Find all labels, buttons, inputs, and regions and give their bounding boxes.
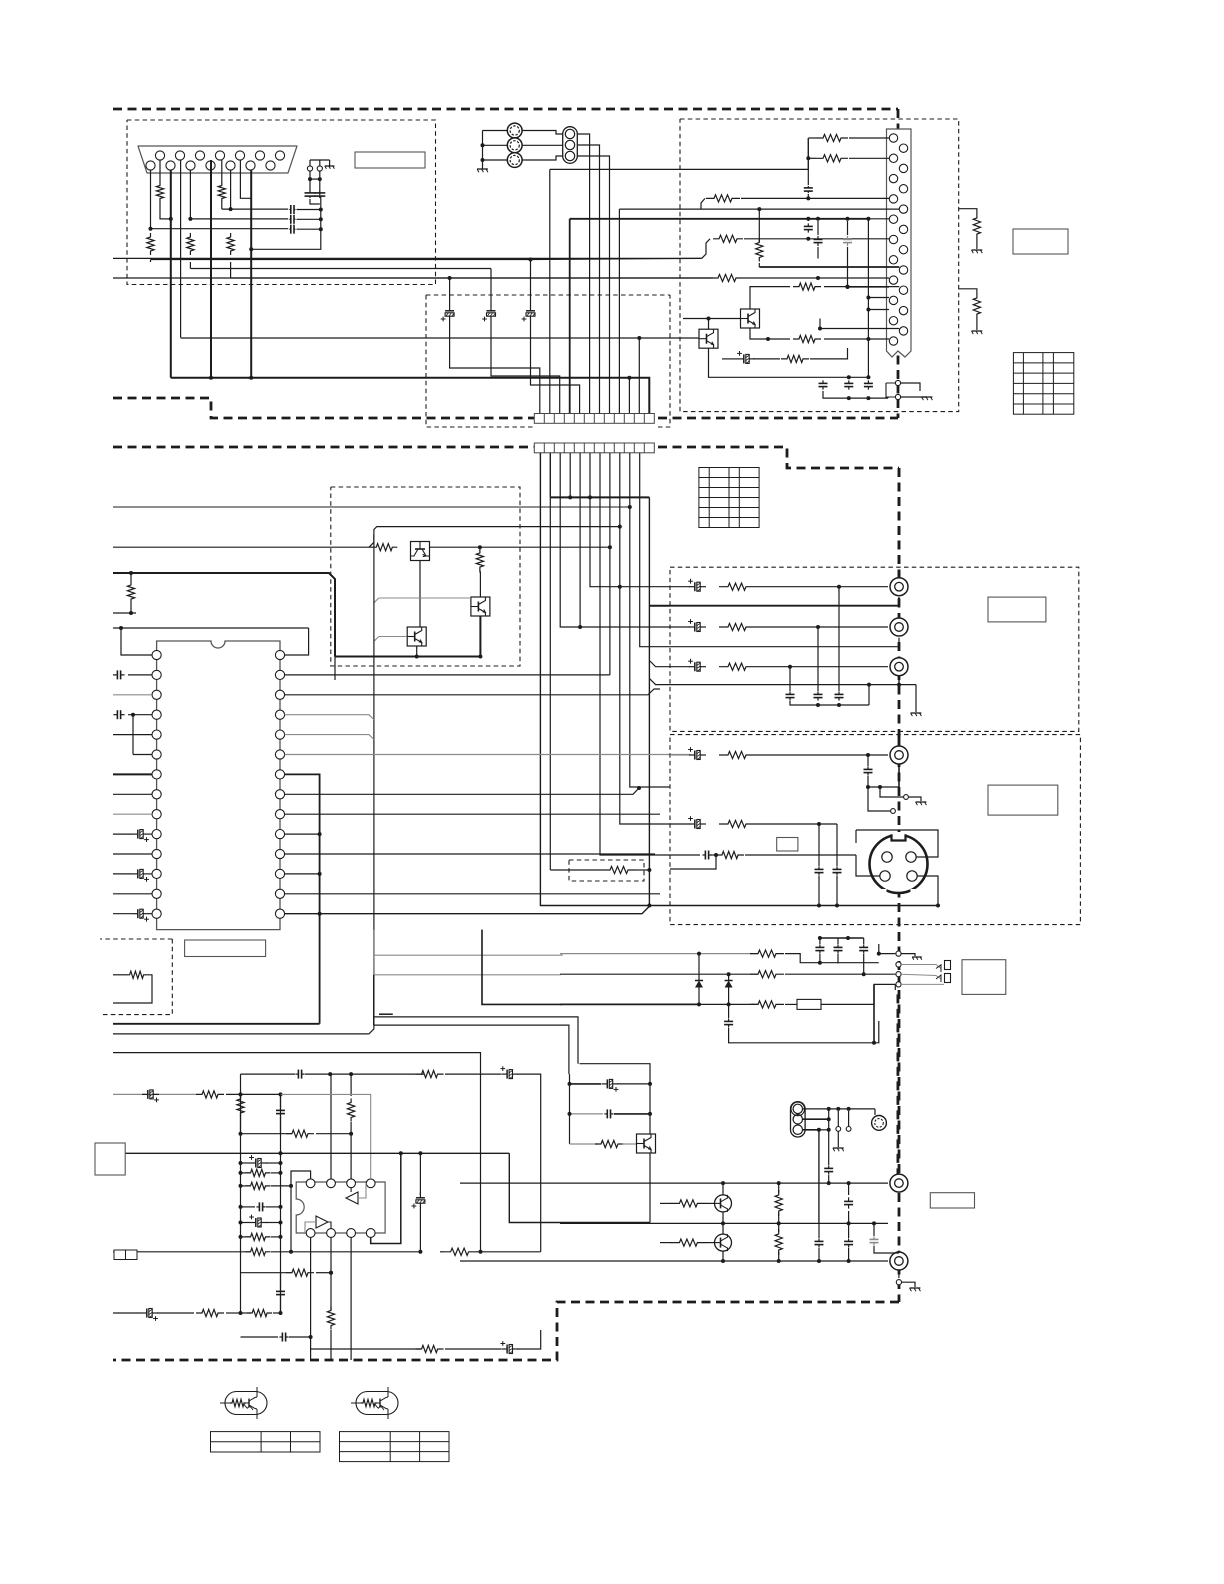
wire out1 return thick [670, 605, 899, 607]
capacitor C bottom row 3 [867, 380, 869, 383]
jack RCA audio R [890, 1252, 908, 1270]
capacitor C top row 3 [863, 938, 865, 944]
ground near 2-pin jack [329, 160, 331, 166]
capacitor C pin2 [113, 674, 114, 676]
label box left edge [95, 1143, 125, 1175]
wire pin13 [113, 893, 152, 895]
wire bus exits to rows 667/685 [649, 661, 690, 667]
resistor on pin7 [221, 160, 223, 184]
ground bottom 2-pin [922, 396, 933, 398]
resistor R feedback [113, 974, 128, 976]
resistor on pin 2 [159, 160, 161, 184]
label box right [1013, 229, 1068, 254]
wire Q5 emitter down join [416, 646, 418, 657]
hp switch arrows [901, 965, 941, 969]
wire long 258.4 from left [113, 257, 702, 259]
wire cluster feeds down [569, 1074, 571, 1144]
jack aux circle [872, 1116, 887, 1131]
dashed box AV output group [680, 119, 959, 412]
wire bus 370 vertical [369, 534, 374, 1034]
resistor R cluster base [570, 1143, 599, 1145]
wire IC right pin14 heavy [285, 906, 650, 913]
wire IC right pin10 [285, 833, 320, 835]
capacitor C at pin 198 [807, 186, 809, 188]
wire long left 547 [113, 546, 372, 548]
capacitor C audio 4 gray [873, 1223, 875, 1236]
resistor R v1 [237, 1096, 244, 1116]
resistor R feed 4 [712, 274, 742, 281]
connector multi-pin circles [889, 134, 897, 142]
wire gray to pin [281, 1094, 371, 1178]
transistor Q3 box [411, 542, 430, 561]
capacitor C chroma row [670, 854, 700, 856]
resistor below pin (left) [147, 233, 154, 255]
connector multi-pin body [887, 129, 912, 357]
wire switch common heavy [335, 656, 480, 658]
wire pin 287 [848, 286, 890, 288]
wire out gnd drop [898, 675, 900, 685]
wire long 1002 [482, 930, 562, 1005]
capacitor electrolytic pin14 [132, 913, 138, 915]
wire IC right pin5 hook to bus [285, 735, 374, 740]
capacitor electrolytic cluster [570, 1083, 602, 1085]
wire bus net497 drop to rows 606/905 [648, 497, 650, 905]
op-amp IC U2 body [296, 1182, 385, 1233]
capacitor pair below jack [309, 191, 311, 193]
wire top board outline heavy dashed [113, 108, 898, 111]
wire pin6 loop [133, 754, 152, 756]
wire RCA trio commons [483, 130, 508, 132]
resistor R emitter 2 [793, 335, 821, 342]
capacitor C 246 b gray [847, 236, 849, 240]
wire corner 218.8 from bus heavy [570, 218, 869, 220]
capacitor electrolytic bot-a [113, 1312, 141, 1314]
wire vertical main bus in box [867, 219, 869, 298]
capacitor electrolytic out1 [670, 586, 690, 588]
wire bus cell7 to row 855 [600, 453, 670, 855]
wire corner 169 drop [549, 169, 551, 413]
wire pin6 heavy down [210, 160, 212, 378]
resistor R in-b [241, 1172, 251, 1174]
wire U2 bottom pin drops [310, 1237, 312, 1360]
wire pin8 down w/resistor [230, 170, 232, 209]
wire filter caps bottom [790, 701, 869, 705]
ground RCA trio [477, 168, 488, 170]
connector CN dashed box (D-sub group) [127, 120, 436, 285]
wire net 627 across IC top [113, 627, 309, 629]
capacitor C y [867, 755, 869, 766]
wire bus cell9 to row 824 [620, 453, 670, 824]
capacitor C bottom row 1 [822, 380, 824, 383]
op-amp triangle 1 [346, 1192, 358, 1204]
wire bus stub [628, 378, 630, 414]
connector pin stub a [904, 795, 909, 800]
wire bus cell2 descender to R-box [549, 497, 551, 870]
wire bus to caps [222, 208, 288, 210]
wire hp caps top rail [820, 937, 864, 939]
resistor R base L [660, 1202, 671, 1204]
wire out3 return [670, 684, 899, 686]
wire bottom caps top link [823, 376, 868, 378]
connector D-sub pins bottom row [146, 161, 155, 170]
ground hp [901, 954, 915, 956]
connector S-video [870, 835, 928, 893]
wire stadium rows [803, 1108, 876, 1110]
wire pin3 [113, 694, 152, 696]
wire transistor rows [460, 1182, 888, 1184]
jack RCA out3 [890, 658, 908, 676]
diode D1 [698, 954, 700, 977]
transistor Q audio L [715, 1195, 732, 1212]
wire IC right pin4 hook to bus [285, 715, 374, 720]
wire junction fan below IC [373, 955, 375, 958]
wire chroma loop [670, 855, 716, 869]
capacitor C bottom row 2 [848, 380, 850, 383]
wire IC right pin6 gray long to row 755 [285, 754, 690, 756]
resistor R link [602, 866, 636, 873]
op-amp IC U1 body (DIP-28) [157, 641, 280, 930]
connector 2-pin jack [307, 166, 312, 171]
capacitor C audio 2 [818, 1233, 820, 1238]
resistor R c-out [719, 820, 755, 827]
wire bus cell3 to row 627 [560, 453, 670, 627]
wire Q3 collector down [419, 561, 421, 628]
wire hp row3 thick [560, 1003, 699, 1005]
capacitor electrolytic in-a [241, 1162, 251, 1164]
wire bus cell5 [579, 453, 581, 627]
wire bus cell1 to gnd row [540, 453, 670, 906]
wire vertical cap feed [807, 138, 809, 185]
hp switch contacts [945, 961, 951, 970]
legend digital transistor 1 [225, 1392, 267, 1415]
wire hp row1 gray [560, 953, 758, 955]
connector stadium 3-pin [522, 131, 563, 135]
wire into Q4 base gray [379, 597, 471, 599]
wire hp jack contacts [818, 962, 838, 964]
capacitor electrolytic out2 [670, 626, 690, 628]
IC U2 bottom pins [306, 1229, 315, 1238]
capacitor C audio 3 [848, 1223, 850, 1238]
capacitor C top row 2 [837, 938, 839, 944]
wire c to svideo [836, 824, 838, 836]
wire pin10 heavy down [250, 170, 252, 378]
ground svideo stub [908, 797, 921, 801]
wire IC pin28 feed [285, 628, 309, 655]
wire row 1223 [560, 1222, 888, 1224]
connector pin stub b [891, 809, 896, 814]
IC U1 right pins [275, 650, 284, 659]
resistor R above Q4 [479, 547, 481, 551]
wire main board top edge heavy dashed [113, 446, 534, 449]
wire Q4 emitter down join [479, 616, 481, 657]
capacitor electrolytic E2 vertical [490, 269, 492, 306]
label box svideo [988, 785, 1058, 815]
capacitor electrolytic small [722, 358, 738, 360]
table legend 2 [340, 1432, 450, 1462]
wire pin7 thick [113, 773, 152, 775]
wire svideo bottom bus [670, 905, 938, 907]
wire top board right edge heavy dashed [897, 109, 900, 418]
wire IC right pin12 [285, 873, 320, 875]
small 2-cell box left edge [114, 1250, 137, 1260]
wire Q2 collector up [708, 319, 710, 330]
wire jack leads down [309, 171, 311, 192]
connector strip lower (board link) [534, 443, 654, 453]
capacitor electrolytic op-feed [501, 1073, 507, 1075]
jack RCA y-out [890, 746, 908, 764]
wire pin11 [113, 853, 152, 855]
resistor R feed 3 [702, 239, 710, 259]
resistor R bot-b [196, 1309, 224, 1316]
capacitor electrolytic pin10 [132, 833, 138, 835]
jack RCA out1 [890, 578, 908, 596]
wire IC right pin9 [285, 813, 660, 815]
fuse/bead box [785, 1003, 797, 1005]
resistor pulldown R out2 [959, 289, 977, 296]
capacitor C bot [241, 1336, 279, 1338]
resistor R right mid [291, 1251, 420, 1253]
wire bus cell6 to row 587 [590, 453, 670, 587]
resistor R out1 [719, 583, 755, 590]
capacitor electrolytic bot-d [501, 1348, 507, 1350]
op-amp triangle 2 [316, 1216, 328, 1228]
heavy dashed net svideo [898, 735, 901, 744]
wire corner 209 from bus [619, 208, 759, 210]
wire IC right pin13 [285, 893, 660, 895]
wire long left 507 [113, 506, 630, 508]
capacitor C audio 1 [848, 1183, 850, 1195]
capacitor coupling 3 [151, 228, 289, 230]
dashed box video out group [670, 567, 1079, 731]
resistor R v2 [348, 1099, 355, 1122]
connector D-sub pins top row [155, 151, 164, 160]
resistor R bot1 [241, 1312, 252, 1314]
ground pulldown 2 [972, 330, 983, 332]
heavy dashed net through jacks [898, 468, 901, 578]
connector strip upper (board link) [534, 414, 654, 424]
wire cluster drop transistor [580, 1064, 651, 1084]
resistor R feed pin1 [808, 137, 816, 139]
wire pin9 gray [113, 813, 152, 815]
transistor Q cluster [637, 1134, 656, 1153]
capacitor electrolytic y-out [670, 754, 690, 756]
IC U1 left pins [152, 650, 161, 659]
transistor Q1 box [683, 318, 741, 320]
transistor Q5 box [407, 627, 426, 646]
diode D2 [728, 974, 730, 977]
wire pin lead 198 [741, 197, 889, 199]
capacitor electrolytic in-d [241, 1222, 251, 1224]
wire D-sub pin leads down [150, 170, 152, 229]
wire IC bottom left return [113, 1023, 320, 1025]
wire pin 328 [820, 328, 899, 330]
capacitor C pin4 [113, 714, 117, 716]
resistor R into Q3 [371, 544, 397, 551]
wire jack R stem [898, 1272, 900, 1278]
resistor R hp1 [750, 950, 784, 957]
resistor R in1 [113, 1093, 196, 1095]
resistor R1 [706, 195, 740, 202]
resistor below pin5 [189, 170, 191, 219]
wire bus cell2 net497 thick [549, 453, 551, 498]
transistor Q4 box [471, 597, 490, 616]
resistor R y-out [719, 751, 755, 758]
wire main board right edge heavy dashed [898, 468, 901, 1302]
resistor R bot-c [311, 1348, 421, 1350]
table pin chart [1013, 353, 1073, 415]
wire long signal 3 [231, 277, 450, 279]
wire cap return loop [251, 197, 321, 249]
wire bus cell11 to row 647 [640, 453, 670, 647]
wire Q cluster emitter [649, 1153, 651, 1223]
capacitor electrolytic E3 vertical [530, 260, 532, 306]
wire long signal 4 to Q2 [181, 337, 699, 339]
wire long signal 5 heavy [171, 378, 650, 414]
capacitor coupling 2 [190, 218, 288, 220]
resistor R load R [775, 1229, 782, 1255]
contacts small circles [836, 1127, 841, 1132]
dashed box power caps group [426, 294, 670, 296]
wire long signal 2 [190, 268, 491, 270]
wire bus cell10 to row 787 [630, 453, 670, 787]
capacitor electrolytic E1 vertical [449, 278, 451, 305]
wire out2 return [670, 646, 899, 648]
wire bend 526 from left [369, 527, 620, 548]
wire long 1025 to drop [373, 1017, 375, 1025]
wire corner 209 drop [618, 209, 620, 413]
resistor R fb2 [241, 1272, 293, 1274]
capacitor C mid [241, 1206, 256, 1208]
capacitor C filter trio [789, 667, 791, 691]
resistor R feed pin3 [808, 157, 816, 159]
wire corner 218 drop heavy [569, 219, 571, 414]
resistor R in-f [113, 1251, 250, 1253]
resistor R out3 [719, 663, 755, 670]
resistor R 358 [781, 355, 809, 362]
resistor R in-c [241, 1185, 251, 1187]
wire bus cell8 to IC pin2 [609, 453, 611, 675]
wire svideo pins [856, 855, 880, 876]
resistor R op-feed [416, 1071, 444, 1078]
resistor pulldown R out1 [959, 209, 977, 216]
wire hp return vertical [894, 984, 896, 990]
capacitor electrolytic pin12 [132, 873, 138, 875]
capacitor C top row 1 [819, 938, 821, 944]
capacitor electrolytic out3 [689, 666, 695, 668]
wire pin 297 from vertical [868, 297, 889, 299]
capacitor C op1 [241, 1073, 296, 1075]
capacitor C cluster [570, 1113, 604, 1115]
resistor R fb1 [241, 1133, 293, 1135]
label box audio out [930, 1193, 974, 1208]
wire long signal 1 [151, 259, 531, 261]
capacitor C 246 a [817, 236, 819, 240]
wire stadium to strip drops [577, 134, 590, 414]
wire IC right pin8 [285, 788, 639, 794]
wire pin5 [113, 734, 152, 736]
wire bus cell4 [569, 453, 571, 498]
wire net stub mark [379, 1013, 393, 1015]
resistor R pullup at IC top-left [130, 573, 132, 583]
wire pin4 down [180, 160, 182, 338]
resistor R hp3 [750, 1001, 784, 1008]
connector stadium audio [791, 1102, 806, 1137]
ground audio jacks [902, 1282, 916, 1287]
wire stadium drops [828, 1109, 830, 1165]
transistor Q2 box [699, 329, 718, 348]
label small box [777, 838, 798, 852]
wire U2 left pin link [291, 1171, 311, 1186]
table legend 1 [211, 1432, 321, 1452]
jack RCA out2 [890, 618, 908, 636]
wire long left 573 thick [113, 573, 335, 657]
wire long 1034 [113, 1033, 369, 1035]
wire top board bottom edge heavy dashed [113, 398, 534, 418]
capacitor coupling 1 [289, 209, 291, 211]
label box under IC [185, 940, 266, 957]
jack RCA trio left column [507, 123, 522, 138]
wire Q3 to R node [430, 546, 610, 548]
wire op pins feed verticals [330, 1074, 332, 1179]
jack RCA audio L [890, 1174, 908, 1192]
resistor R v3 [327, 1307, 334, 1330]
wire long 1017 to drop [374, 1017, 578, 1064]
ground stadium [837, 1131, 839, 1147]
connector D-sub body [138, 146, 297, 173]
wire long 1052 down [113, 1053, 481, 1252]
wire main board bottom-right heavy dashed [113, 1302, 899, 1360]
ECV mid right [419, 1153, 421, 1195]
ground pulldown 1 [972, 249, 983, 251]
legend digital transistor 2 [356, 1392, 398, 1415]
wire Q1 emitter down [750, 328, 768, 339]
IC U2 top pins [306, 1179, 315, 1188]
ground video out [911, 712, 922, 714]
wire bottom caps ground link [823, 391, 888, 398]
label box headphone [962, 960, 1006, 995]
capacitor C svideo gnd 2 [836, 836, 838, 866]
wire into Q5 base gray [379, 636, 407, 638]
wire bus left vertical [280, 1094, 282, 1311]
wire stub 613 [113, 612, 136, 614]
wire pin9 jog [240, 160, 251, 198]
wire bot rail [240, 1074, 242, 1313]
dashed box svideo group [670, 735, 1080, 925]
capacitor electrolytic c-out [670, 823, 690, 825]
resistor R out2 [719, 623, 755, 630]
wire mid rail 1153 [113, 1152, 509, 1154]
resistor R load L [775, 1190, 782, 1216]
wire IC pin1 feed [121, 628, 152, 655]
resistor R emitter 1 [750, 287, 790, 309]
connector 2-pin bottom [895, 380, 900, 385]
wire long 278 from left [113, 277, 712, 279]
resistor R hp2 [750, 971, 784, 978]
wire Q2 emitter down [709, 349, 824, 378]
resistor R vertical 250 [758, 209, 760, 242]
wire IC right pin11 [285, 853, 655, 855]
resistor R chroma [716, 851, 744, 858]
label box (connector name) [355, 152, 425, 168]
resistor R in-e [241, 1236, 251, 1238]
wire row 1261 [460, 1260, 888, 1262]
label box video out [988, 597, 1046, 622]
dashed box feedback R [100, 938, 172, 940]
resistor R base R [660, 1242, 671, 1244]
dashed box switch transistors [331, 487, 520, 666]
wire 267 to pin [759, 266, 899, 268]
capacitor C svideo gnd 1 [818, 836, 820, 866]
